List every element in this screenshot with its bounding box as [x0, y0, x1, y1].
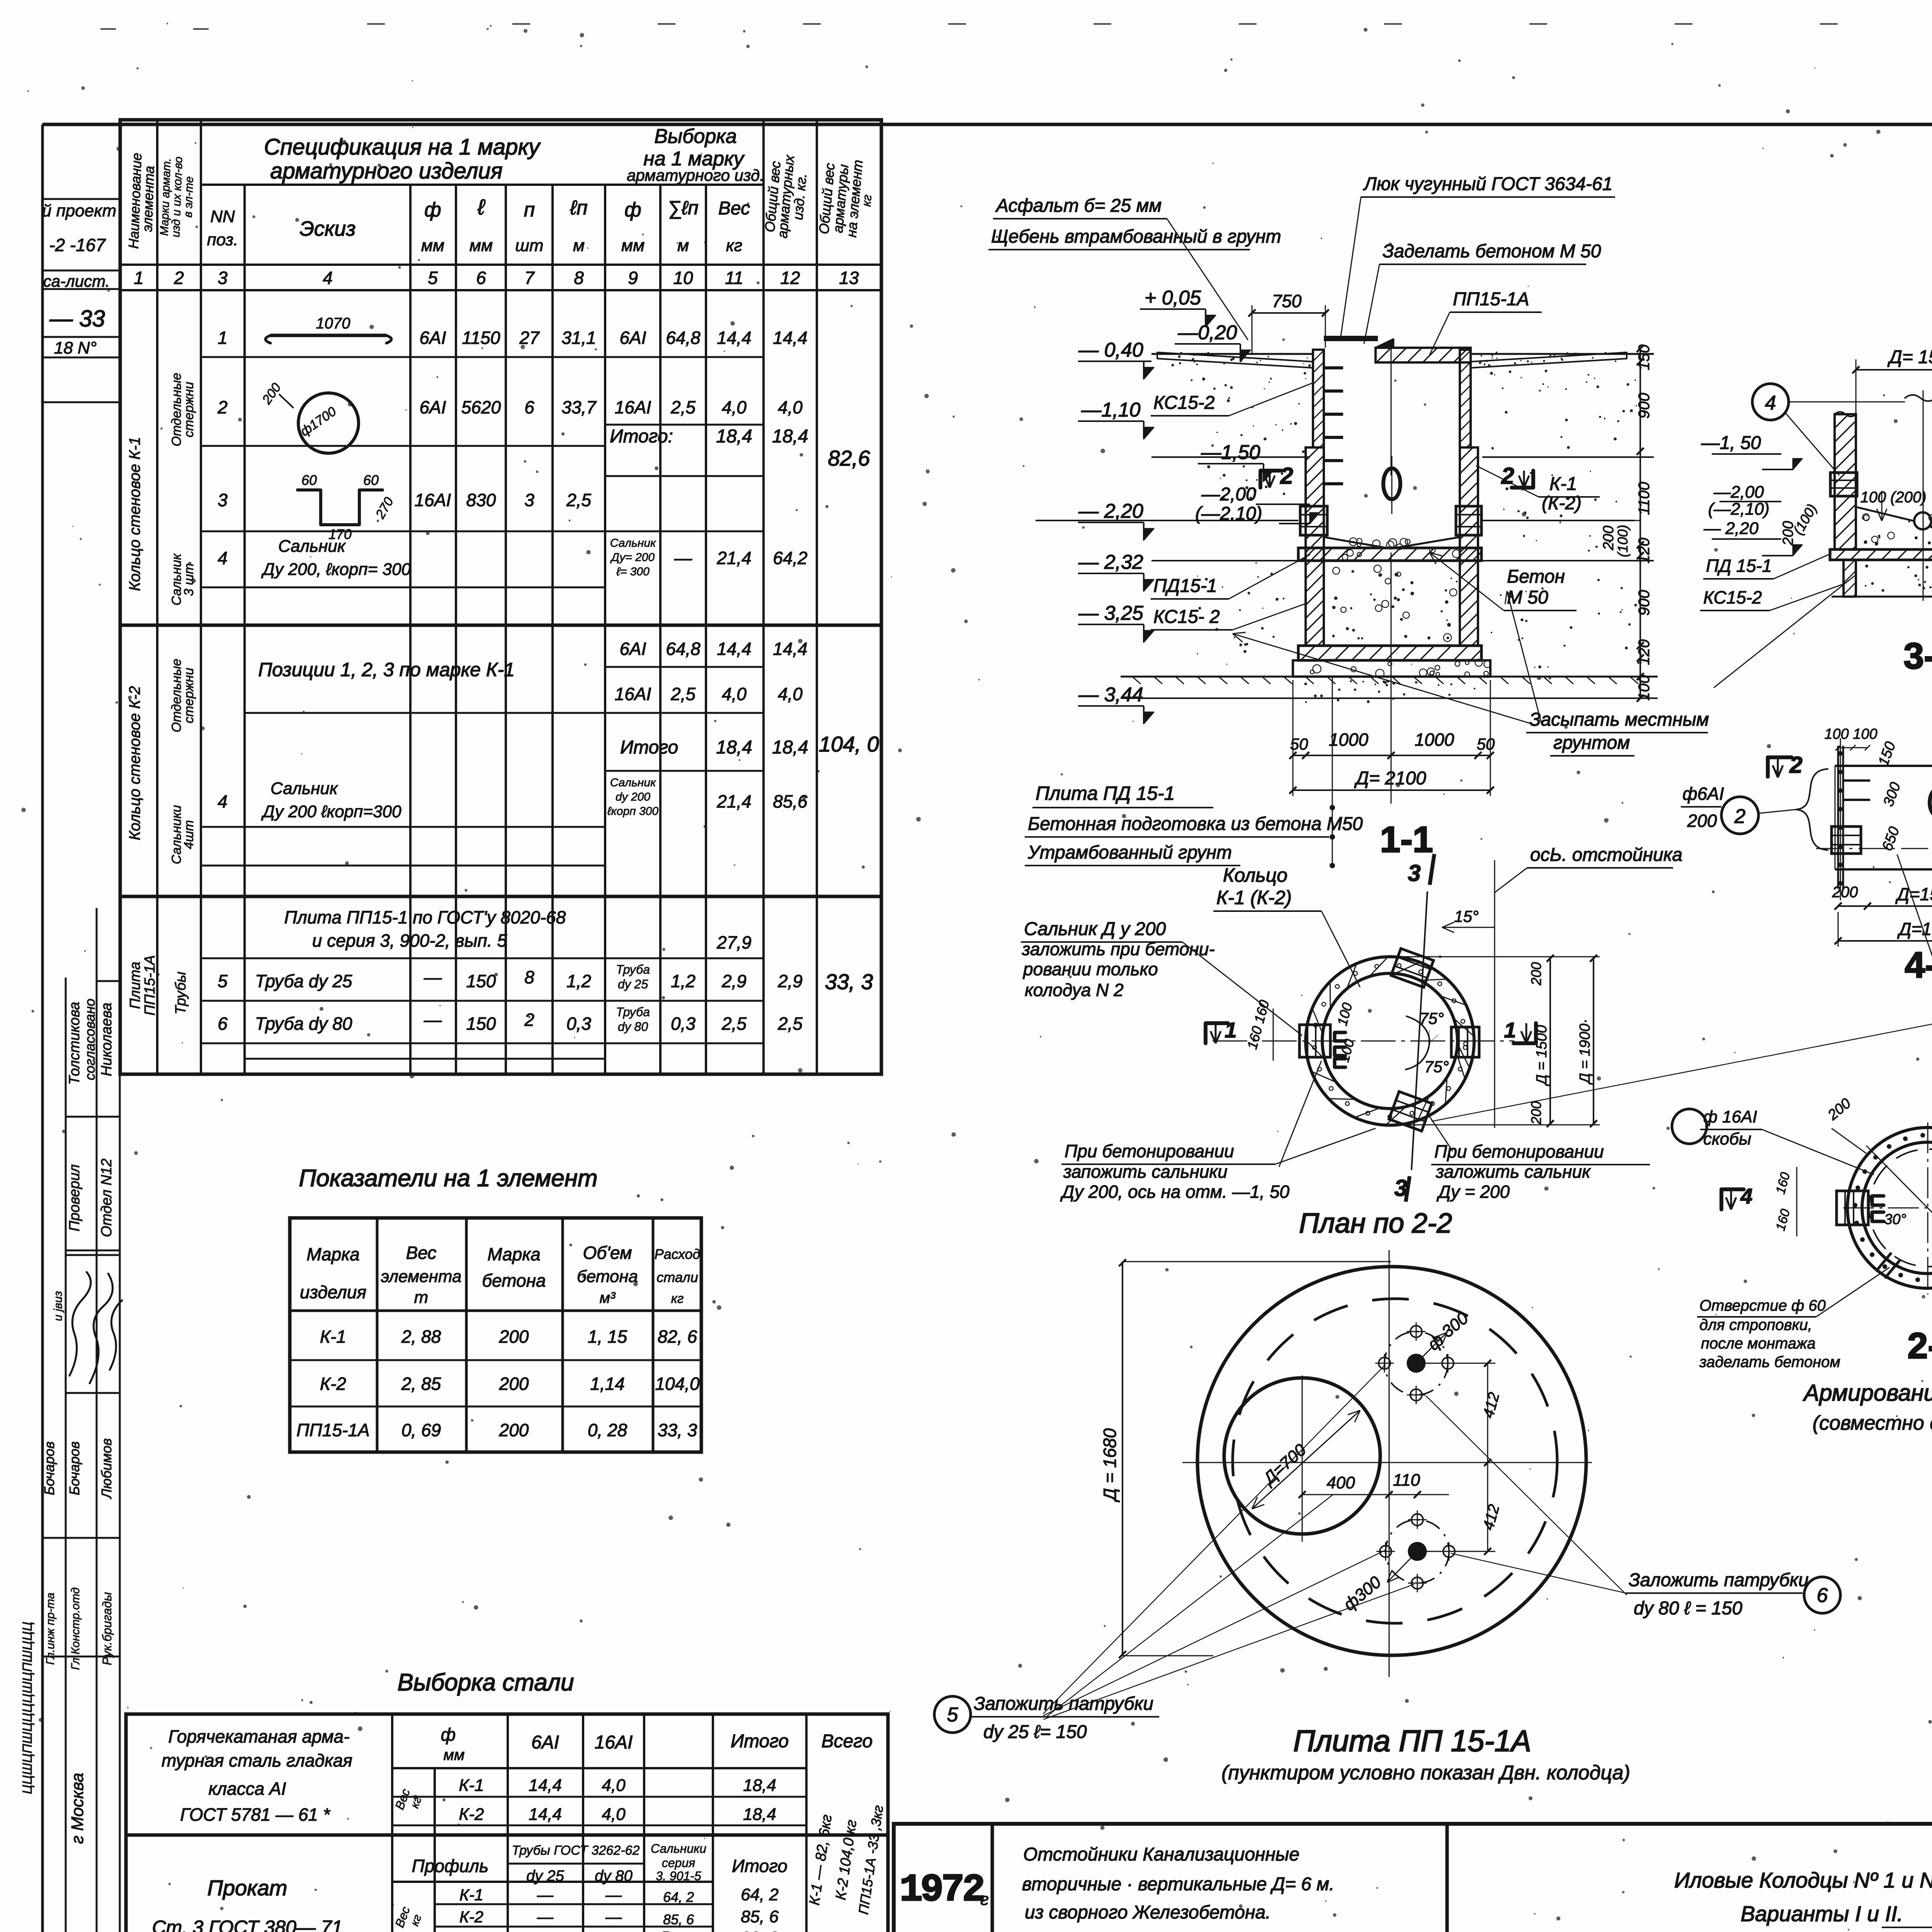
svg-text:Сальник: Сальник [270, 779, 338, 798]
svg-text:м: м [573, 236, 585, 255]
svg-text:4,0: 4,0 [602, 1805, 626, 1824]
svg-text:бетона: бетона [482, 1270, 546, 1291]
svg-text:830: 830 [466, 490, 496, 510]
svg-text:ПД 15-1: ПД 15-1 [1706, 556, 1772, 576]
svg-text:КС15-2: КС15-2 [1703, 587, 1762, 607]
svg-text:Толстикова: Толстикова [66, 1002, 83, 1085]
svg-text:6АI: 6АI [419, 397, 446, 417]
svg-text:—1,50: —1,50 [1201, 441, 1260, 464]
svg-text:2,5: 2,5 [670, 397, 696, 417]
signatures scribbles [70, 1272, 91, 1376]
svg-text:(пунктиром условно показан: (пунктиром условно показан Двн. колодца) [1221, 1762, 1630, 1784]
svg-text:Прокат: Прокат [207, 1876, 287, 1900]
ф300 label bottom [1387, 1551, 1417, 1582]
svg-text:3: 3 [524, 490, 534, 510]
svg-text:мм: мм [621, 236, 645, 255]
svg-text:NN: NN [210, 207, 235, 226]
3-3 long leader to засыпать [1714, 576, 1855, 688]
svg-text:0, 28: 0, 28 [588, 1420, 628, 1440]
spec section dividers [120, 624, 881, 627]
svg-text:2: 2 [173, 268, 184, 288]
svg-text:18 N°: 18 N° [54, 338, 97, 357]
dim 400 110 [1302, 1494, 1449, 1495]
right dimension chain 1-1 [1639, 349, 1641, 698]
svg-text:Трубы ГОСТ 3262-62: Трубы ГОСТ 3262-62 [512, 1843, 640, 1858]
svg-text:кг: кг [859, 194, 874, 207]
svg-text:класса АI: класса АI [208, 1779, 286, 1799]
svg-text:ℓ= 300: ℓ= 300 [616, 565, 650, 578]
2-2 сальник left [1837, 1191, 1868, 1225]
лоток funnel lines [1324, 537, 1391, 549]
4-4 slab outline [1835, 765, 1932, 767]
svg-text:Гл.инж пр-та: Гл.инж пр-та [44, 1593, 57, 1665]
svg-text:1070: 1070 [316, 315, 350, 332]
svg-text:m: m [414, 1288, 429, 1307]
svg-text:— 0,40: — 0,40 [1078, 339, 1143, 361]
сальник right 1-1 [1456, 506, 1481, 535]
плита dashed circle [1233, 1299, 1557, 1623]
svg-text:—: — [605, 1886, 622, 1904]
план 2-2 сальник bottom rotated [1389, 1092, 1432, 1131]
svg-text:0,3: 0,3 [566, 1014, 591, 1034]
svg-text:900: 900 [1636, 590, 1653, 616]
svg-text:104,0: 104,0 [655, 1374, 700, 1394]
label 6 Заложить патрубки [1804, 1577, 1840, 1613]
svg-text:Армирование Колец К-1 и К-2: Армирование Колец К-1 и К-2 [1803, 1380, 1932, 1406]
svg-text:1: 1 [218, 328, 228, 348]
4-4 left post rebar [1837, 746, 1839, 889]
svg-text:dy 80: dy 80 [595, 1867, 633, 1884]
svg-text:2,5: 2,5 [721, 1014, 747, 1034]
svg-text:1972: 1972 [900, 1869, 983, 1912]
svg-text:Д = 1900·: Д = 1900· [1577, 1019, 1593, 1085]
3-3 top break lines [1835, 412, 1856, 417]
svg-text:ЦЦШЦПШЦЦЦЦШЦПШЦЦЦ: ЦЦШЦПШЦЦЦЦШЦПШЦЦЦ [20, 1622, 35, 1794]
svg-text:1100: 1100 [1636, 482, 1653, 515]
svg-text:п: п [524, 199, 535, 221]
svg-text:Д = 1680: Д = 1680 [1100, 1428, 1120, 1503]
svg-text:—1,10: —1,10 [1081, 399, 1140, 421]
svg-text:4: 4 [218, 548, 228, 568]
bottom slab 1-1 [1298, 646, 1481, 660]
svg-text:14,4: 14,4 [529, 1776, 562, 1795]
svg-text:ℓп: ℓп [570, 197, 587, 219]
svg-text:й проект: й проект [42, 201, 116, 220]
svg-text:75°: 75° [1419, 1009, 1444, 1027]
svg-text:Бочаров: Бочаров [66, 1441, 82, 1495]
сальник left 1-1 [1300, 506, 1327, 535]
svg-text:100: 100 [1636, 675, 1653, 701]
svg-text:2,9: 2,9 [777, 971, 803, 991]
svg-text:ровании только: ровании только [1022, 959, 1158, 979]
svg-text:К-1 (К-2): К-1 (К-2) [1216, 887, 1292, 908]
svg-text:10: 10 [673, 268, 693, 288]
svg-text:Профиль: Профиль [412, 1856, 489, 1876]
top patrubok group [1408, 1355, 1424, 1371]
svg-text:85, 6: 85, 6 [663, 1912, 694, 1927]
svg-text:стали: стали [656, 1269, 698, 1285]
svg-text:турная сталь гладкая: турная сталь гладкая [162, 1750, 352, 1770]
svg-text:200: 200 [499, 1374, 529, 1394]
svg-text:18,4: 18,4 [716, 737, 752, 758]
svg-text:1000: 1000 [1329, 730, 1369, 750]
svg-text:Горячекатаная арма-: Горячекатаная арма- [168, 1726, 349, 1747]
svg-text:— 2,32: — 2,32 [1078, 551, 1143, 573]
svg-text:120: 120 [1636, 538, 1653, 564]
top slab ПП15-1А [1376, 348, 1471, 362]
svg-text:30°: 30° [1884, 1211, 1906, 1228]
svg-text:75°: 75° [1424, 1058, 1449, 1076]
svg-text:Иловые Колодцы Nº 1: Иловые Колодцы Nº 1 и Nº 2. [1674, 1868, 1932, 1892]
svg-text:2: 2 [524, 1010, 534, 1030]
svg-text:1,2: 1,2 [671, 971, 696, 991]
svg-text:750: 750 [1272, 291, 1302, 311]
люк cover [1324, 336, 1378, 341]
svg-text:1-1: 1-1 [1380, 819, 1433, 860]
bottom dims 50 1000 1000 50 [1293, 755, 1490, 756]
svg-text:Запожить патрубки: Запожить патрубки [974, 1694, 1153, 1714]
svg-text:3. 901-5: 3. 901-5 [656, 1869, 701, 1883]
svg-text:ПП15-1А: ПП15-1А [1453, 289, 1529, 310]
svg-text:3 шт: 3 шт [182, 563, 196, 596]
svg-text:200: 200 [499, 1420, 529, 1440]
svg-text:14,4: 14,4 [717, 639, 752, 659]
svg-text:—: — [605, 1908, 622, 1926]
план 2-2 section mark 1 left [1206, 1023, 1228, 1043]
svg-text:Гл.Констр.отд: Гл.Констр.отд [69, 1587, 82, 1670]
svg-text:ф: ф [424, 199, 441, 221]
svg-text:1: 1 [1504, 1018, 1516, 1042]
svg-text:16АI: 16АI [615, 684, 651, 704]
spec table column header band [120, 264, 881, 266]
svg-text:Плита: Плита [127, 962, 143, 1009]
svg-text:ПД15-1: ПД15-1 [1153, 576, 1217, 596]
svg-text:(совместно см. план по 2-2: (совместно см. план по 2-2) [1813, 1412, 1932, 1434]
плита outer circle [1197, 1267, 1586, 1655]
план 2-2 ring hatch [1457, 1055, 1464, 1077]
svg-text:ф 16АI: ф 16АI [1703, 1107, 1757, 1126]
svg-text:При бетонировании: При бетонировании [1065, 1141, 1234, 1161]
svg-text:(—2,10): (—2,10) [1708, 500, 1770, 519]
svg-text:согласовано: согласовано [82, 998, 98, 1080]
dim Д=1680 [1122, 1262, 1123, 1656]
svg-text:м³: м³ [600, 1289, 616, 1306]
svg-text:85,6: 85,6 [773, 791, 808, 811]
план 2-2 outer ring [1306, 957, 1474, 1125]
svg-text:К-1: К-1 [459, 1776, 484, 1795]
4-4 circle 2 label [1721, 797, 1759, 834]
section 1-1 left wall [1313, 350, 1324, 447]
svg-text:120: 120 [1636, 639, 1653, 665]
dim 750 top [1252, 312, 1325, 314]
svg-text:элемента: элемента [139, 165, 157, 232]
svg-text:16АI: 16АI [615, 397, 651, 417]
sheet frame [43, 123, 1932, 126]
spec table data grid verticals [156, 290, 158, 1074]
svg-text:4шт: 4шт [182, 820, 196, 849]
svg-text:Труба dy 25: Труба dy 25 [255, 971, 352, 991]
asphalt slope left [1157, 352, 1313, 368]
svg-text:2,5: 2,5 [670, 684, 696, 704]
svg-text:—: — [674, 548, 692, 568]
3-3 middle slab [1830, 549, 1932, 560]
3-3 lower walls [1844, 560, 1856, 597]
svg-text:2: 2 [1789, 752, 1802, 778]
svg-text:серия: серия [662, 1856, 695, 1870]
svg-text:изделия: изделия [300, 1282, 366, 1302]
svg-text:Вес: Вес [406, 1243, 437, 1263]
svg-text:9: 9 [628, 268, 638, 288]
svg-text:31,1: 31,1 [561, 328, 596, 348]
leader from note to план [1897, 855, 1932, 1011]
svg-text:200: 200 [1528, 1101, 1544, 1125]
svg-text:13: 13 [839, 268, 859, 288]
svg-text:8: 8 [524, 967, 534, 987]
svg-text:15°: 15° [1454, 907, 1479, 925]
svg-text:—1, 50: —1, 50 [1701, 433, 1761, 453]
svg-text:900: 900 [1636, 393, 1653, 419]
3-3 лоток funnel [1856, 507, 1913, 521]
svg-text:Отстойники Канализационны: Отстойники Канализационные [1023, 1844, 1299, 1865]
svg-text:64, 2: 64, 2 [741, 1885, 779, 1904]
svg-text:и серия 3, 900-2, вып. 5: и серия 3, 900-2, вып. 5 [312, 930, 507, 951]
svg-text:60: 60 [301, 472, 317, 488]
svg-text:64, 2: 64, 2 [663, 1889, 694, 1905]
ground hatch ticks at bottom bed [1132, 677, 1141, 684]
svg-text:33, 3: 33, 3 [741, 1929, 779, 1932]
svg-text:3: 3 [218, 268, 228, 288]
svg-text:— 2,20: — 2,20 [1703, 519, 1759, 538]
svg-text:в эл-те: в эл-те [182, 176, 196, 218]
svg-text:поз.: поз. [207, 230, 238, 249]
svg-text:6: 6 [524, 397, 534, 417]
svg-text:элемента: элемента [381, 1267, 462, 1286]
svg-text:Заделать бетоном М 50: Заделать бетоном М 50 [1383, 241, 1601, 262]
signature strip verticals [65, 978, 67, 1932]
svg-text:для строповки,: для строповки, [1699, 1316, 1812, 1333]
svg-text:dy 25: dy 25 [618, 977, 648, 991]
svg-text:2: 2 [1734, 805, 1746, 828]
svg-text:ПП15-1А: ПП15-1А [142, 955, 158, 1015]
svg-text:Выборка стали: Выборка стали [398, 1669, 574, 1696]
svg-text:КС15- 2: КС15- 2 [1153, 607, 1220, 627]
бетон fill speckle [1451, 578, 1452, 579]
svg-text:бетона: бетона [577, 1267, 638, 1286]
план 2-2 section 3 line [1412, 891, 1427, 1170]
svg-text:(—2.10): (—2.10) [1195, 503, 1262, 524]
svg-text:11: 11 [725, 268, 743, 288]
svg-text:dy 200: dy 200 [616, 791, 650, 803]
svg-text:Плита ПП15-1 по ГОСТ'у 8020: Плита ПП15-1 по ГОСТ'у 8020-68 [284, 907, 566, 927]
svg-text:Кольцо стеновое К-2: Кольцо стеновое К-2 [126, 686, 143, 840]
отверстие oval 1-1 [1383, 468, 1400, 499]
svg-text:Бетонная подготовка из бетона: Бетонная подготовка из бетона М50 [1028, 814, 1363, 834]
3-3 center axis [1923, 390, 1924, 601]
svg-text:50: 50 [1477, 735, 1495, 753]
svg-text:16АI: 16АI [415, 490, 451, 510]
2-2 inner dashed circle [1869, 1149, 1932, 1267]
svg-text:Рук.бригады: Рук.бригады [100, 1592, 114, 1665]
svg-text:3-3: 3-3 [1903, 636, 1932, 677]
svg-text:вторичные · вертикальные Д: вторичные · вертикальные Д= 6 м. [1022, 1874, 1334, 1895]
svg-text:200: 200 [1687, 811, 1717, 831]
svg-text:5620: 5620 [461, 397, 501, 417]
svg-text:150: 150 [1636, 345, 1653, 371]
2-2 axes [1843, 1207, 1932, 1209]
svg-text:ГОСТ 5781 — 61 *: ГОСТ 5781 — 61 * [180, 1804, 331, 1825]
svg-text:Эскиз: Эскиз [299, 217, 355, 240]
svg-text:и јвиз: и јвиз [52, 1291, 65, 1321]
svg-text:Итого: Итого [731, 1731, 789, 1752]
Показатели table [290, 1218, 701, 1452]
svg-text:стержни: стержни [182, 382, 196, 437]
svg-text:∑ℓп: ∑ℓп [668, 197, 698, 219]
svg-text:Труба: Труба [616, 963, 650, 976]
svg-text:г Москва: г Москва [68, 1773, 87, 1844]
ground speckle around well [1191, 379, 1193, 381]
svg-text:— 3,25: — 3,25 [1078, 602, 1144, 624]
svg-text:4: 4 [1765, 392, 1776, 414]
svg-text:200: 200 [1832, 884, 1858, 901]
svg-text:200: 200 [499, 1327, 529, 1347]
svg-text:План по 2-2: План по 2-2 [1299, 1208, 1452, 1239]
signature strip rows [97, 980, 120, 982]
svg-text:6АI: 6АI [619, 639, 646, 659]
specification table outer border [120, 120, 881, 1074]
svg-text:16АI: 16АI [595, 1732, 633, 1753]
svg-text:—2,00: —2,00 [1201, 484, 1256, 505]
svg-text:100 100: 100 100 [1824, 726, 1877, 742]
svg-text:Кольцо стеновое К-1: Кольцо стеновое К-1 [126, 437, 143, 591]
svg-text:6: 6 [1817, 1584, 1828, 1607]
svg-text:18,4: 18,4 [743, 1776, 776, 1795]
svg-text:Сальник: Сальник [610, 537, 656, 549]
Д=700 arrow label [1252, 1410, 1360, 1509]
svg-text:3: 3 [1408, 860, 1420, 886]
svg-text:0,3: 0,3 [671, 1014, 696, 1034]
svg-text:К-1: К-1 [1549, 474, 1577, 494]
svg-text:2: 2 [1501, 463, 1514, 489]
svg-text:60: 60 [363, 472, 379, 488]
svg-text:2,5: 2,5 [566, 490, 591, 510]
план 2-2 section mark 1 right [1514, 1023, 1536, 1043]
svg-text:Николаева: Николаева [99, 1003, 115, 1077]
svg-text:Сальник: Сальник [610, 776, 656, 789]
svg-text:12: 12 [780, 268, 800, 288]
svg-text:При бетонировании: При бетонировании [1434, 1141, 1604, 1162]
svg-text:ф: ф [624, 199, 641, 221]
svg-text:скобы: скобы [1703, 1129, 1751, 1148]
svg-text:7: 7 [524, 268, 535, 288]
svg-text:2,5: 2,5 [777, 1014, 803, 1034]
svg-text:кг: кг [671, 1291, 684, 1306]
svg-text:6: 6 [218, 1014, 228, 1034]
svg-text:Д= 1500: Д= 1500 [1887, 347, 1932, 367]
svg-text:Сальник Д у 200: Сальник Д у 200 [1024, 919, 1166, 939]
svg-text:Итого:: Итого: [610, 426, 673, 447]
svg-text:Расход: Расход [655, 1246, 701, 1262]
internal horizontals [126, 1833, 888, 1837]
план 2-2 сальник top rotated [1391, 949, 1434, 987]
svg-text:ПП15-1А: ПП15-1А [296, 1420, 369, 1440]
section 1-1 right wall [1460, 350, 1471, 447]
svg-text:64,8: 64,8 [666, 639, 701, 659]
svg-text:150: 150 [466, 971, 496, 991]
svg-text:0, 69: 0, 69 [401, 1420, 441, 1440]
row pos3 sketch staple [298, 490, 383, 525]
svg-text:ℓкорп 300: ℓкорп 300 [607, 805, 658, 818]
svg-text:Марка: Марка [306, 1244, 359, 1264]
svg-text:1000: 1000 [1415, 730, 1454, 750]
svg-text:1,14: 1,14 [590, 1374, 625, 1394]
svg-text:200: 200 [1528, 962, 1544, 986]
svg-text:—: — [423, 967, 442, 987]
section 1-1 ground lines [1151, 353, 1313, 355]
svg-text:Засыпать местным: Засыпать местным [1529, 709, 1709, 730]
svg-text:М 50: М 50 [1507, 587, 1548, 608]
svg-text:14,4: 14,4 [529, 1805, 562, 1824]
svg-text:Ду = 200: Ду = 200 [1436, 1182, 1510, 1202]
svg-text:Ду 200, ось на отм. —1, 50: Ду 200, ось на отм. —1, 50 [1060, 1182, 1289, 1202]
svg-text:14,4: 14,4 [773, 639, 808, 659]
svg-text:4,0: 4,0 [722, 684, 747, 704]
svg-text:са-лист.: са-лист. [43, 272, 110, 290]
3-3 left wall [1835, 414, 1856, 549]
svg-text:104, 0: 104, 0 [819, 732, 879, 756]
svg-text:2: 2 [217, 397, 228, 417]
svg-text:Об'ем: Об'ем [583, 1243, 632, 1263]
center axis 1-1 [1391, 340, 1392, 475]
svg-text:колодуа N 2: колодуа N 2 [1025, 980, 1124, 1000]
row pos2 sketch ring [298, 393, 359, 453]
3-3 dim Д=1500 [1856, 369, 1932, 371]
3-3 сальник left [1830, 473, 1857, 496]
svg-text:Ду= 200: Ду= 200 [610, 551, 655, 564]
svg-text:82,6: 82,6 [828, 446, 871, 470]
svg-text:3: 3 [218, 490, 228, 510]
svg-text:18,4: 18,4 [772, 737, 808, 758]
svg-text:после монтажа: после монтажа [1701, 1335, 1816, 1352]
svg-text:+ 0,05: + 0,05 [1145, 287, 1201, 309]
svg-text:2, 88: 2, 88 [401, 1327, 441, 1347]
svg-text:Отверстие ф 60: Отверстие ф 60 [1699, 1297, 1826, 1314]
svg-text:Щебень втрамбованный в грунт: Щебень втрамбованный в грунт [991, 226, 1281, 247]
svg-text:1: 1 [134, 268, 144, 288]
top edge dashed line [367, 23, 1932, 25]
svg-text:Д=1900: Д=1900 [1897, 919, 1932, 939]
svg-text:5: 5 [218, 971, 228, 991]
4-4 center oval [1930, 788, 1932, 817]
svg-text:осЬ. отстойника: осЬ. отстойника [1530, 845, 1682, 865]
svg-text:85, 6: 85, 6 [741, 1907, 779, 1926]
svg-text:27,9: 27,9 [716, 932, 752, 952]
label 5 Заложить патрубки [934, 1696, 971, 1733]
svg-text:—0,20: —0,20 [1177, 321, 1237, 344]
план 2-2 horizontal centerline [1213, 1041, 1514, 1042]
svg-text:Труба: Труба [616, 1005, 650, 1019]
svg-text:Итого: Итого [620, 737, 678, 758]
svg-text:Сальник: Сальник [278, 537, 346, 556]
svg-text:4: 4 [218, 791, 228, 811]
svg-text:шт: шт [515, 236, 543, 255]
svg-text:м: м [677, 236, 689, 255]
svg-text:Варианты I и II.: Варианты I и II. [1741, 1901, 1903, 1926]
svg-text:82, 6: 82, 6 [658, 1327, 697, 1347]
svg-text:(К-2): (К-2) [1542, 493, 1582, 514]
svg-text:150: 150 [466, 1014, 496, 1034]
svg-text:К-2: К-2 [459, 1805, 484, 1824]
svg-text:кг: кг [726, 236, 742, 255]
